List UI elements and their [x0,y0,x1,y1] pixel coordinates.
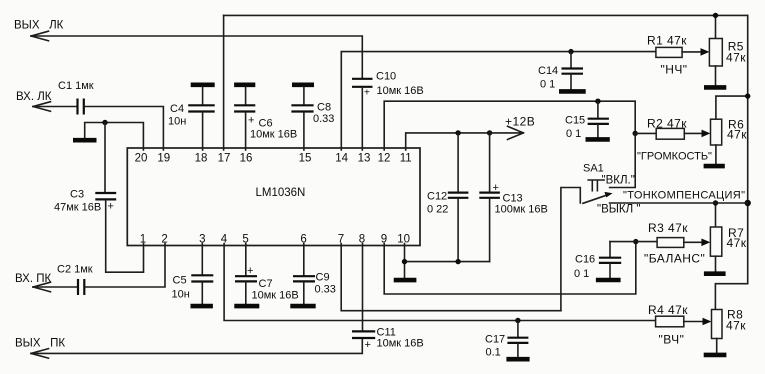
pin numbers top row [135,153,412,165]
svg-text:LM1036N: LM1036N [256,187,306,199]
capacitor C10 [352,71,424,99]
svg-text:"ТОНКОМПЕНСАЦИЯ": "ТОНКОМПЕНСАЦИЯ" [623,190,745,202]
svg-text:0 1: 0 1 [566,128,581,140]
capacitor C3 [54,189,116,214]
svg-text:17: 17 [218,153,231,165]
svg-text:SA1: SA1 [583,163,604,175]
ground (below R8) [704,353,727,358]
svg-text:+: + [365,339,371,351]
svg-text:"БАЛАНС": "БАЛАНС" [644,252,705,266]
svg-text:C4: C4 [170,103,184,115]
wire C3 to pin 1 [106,201,144,273]
capacitor C16 [574,242,621,280]
ground (below C5) [191,304,213,309]
svg-text:R1 47к: R1 47к [647,34,687,48]
svg-text:C16: C16 [575,254,595,266]
wire R3 to R7 wiper arrow [684,239,711,247]
node dot C12 bottom [455,259,460,264]
wire R4 to R8 wiper arrow [684,318,712,326]
svg-text:0.33: 0.33 [313,113,334,125]
svg-text:R4 47к: R4 47к [648,303,688,317]
net ВХ ЛК arrow [33,102,51,112]
wire C8 to pin 15 [303,113,305,151]
capacitor C9 [293,244,336,304]
svg-text:14: 14 [335,153,348,165]
net ВЫХ ПК label [15,338,65,350]
svg-text:+: + [108,201,114,213]
svg-text:C14: C14 [538,65,558,77]
capacitor C6 [234,87,297,140]
node dot pin 10 [402,259,407,264]
svg-text:10мк 16В: 10мк 16В [377,338,424,350]
node dot C12 top [455,130,460,135]
wire to R2 [635,132,656,134]
capacitor C8 [291,87,334,125]
potentiometer R7 [710,203,746,271]
capacitor C12 [427,133,468,262]
wire ВХ ПК to C2 [33,286,77,288]
svg-text:100мк 16В: 100мк 16В [495,204,548,216]
svg-text:C10: C10 [376,71,396,83]
ground (above C6) [234,83,255,88]
ground (below R7) [704,271,726,276]
potentiometer R6 [711,96,748,164]
ground (below C9) [290,304,315,309]
resistor R4 [648,303,688,347]
node dot R2 left [633,131,638,136]
svg-text:11: 11 [400,153,412,165]
svg-text:10мк 16В: 10мк 16В [250,129,297,141]
svg-text:"НЧ": "НЧ" [661,63,688,77]
wire pin 7 to switch [341,244,561,311]
resistor R2 [637,117,712,163]
wire pin 10 ground node [405,244,490,278]
svg-text:10н: 10н [168,116,186,128]
node dot C13 top [487,130,492,135]
svg-text:ВЫХ ЛК: ВЫХ ЛК [14,20,64,32]
svg-text:47к: 47к [727,236,747,250]
svg-text:15: 15 [299,153,312,165]
wire pin 4 to R4 [224,244,655,321]
svg-text:10мк 16В: 10мк 16В [377,85,424,97]
svg-text:C8: C8 [317,102,331,114]
svg-text:C15: C15 [565,115,585,127]
node dot C17 [515,318,520,323]
wire pin 11 to +12V [406,133,490,150]
svg-text:+: + [248,115,254,127]
capacitor C5 [172,244,214,304]
ground (below R6) [704,164,725,169]
capacitor C13 [479,133,548,262]
net ТОНКОМПЕНСАЦИЯ label [623,190,745,202]
node dot C14 [568,49,573,54]
svg-text:C12: C12 [427,191,447,203]
node dot rail tonkompensacia [745,200,751,206]
switch SA1 [561,133,641,310]
wire C4 to pin 18 [202,113,204,151]
svg-text:0 1: 0 1 [574,268,589,280]
capacitor C4 [168,87,215,127]
svg-text:0 22: 0 22 [427,204,448,216]
wire ground node to pin 20 [85,123,144,151]
ground (below R5) [704,85,726,90]
svg-text:C17: C17 [485,334,505,346]
ground (below C17) [506,357,529,362]
wire ВЫХ ЛК to C10 [31,36,362,78]
svg-text:C3: C3 [70,189,84,201]
wire ВХ ЛК to C1 [33,106,77,108]
wire R2 to R6 wiper arrow [684,130,710,138]
svg-text:"ВЫКЛ ": "ВЫКЛ " [597,204,640,216]
svg-text:19: 19 [157,153,170,165]
svg-text:18: 18 [195,153,208,165]
ground (below C15) [586,137,610,142]
svg-text:C5: C5 [173,275,187,287]
node dot C15 [595,99,600,104]
svg-text:0 1: 0 1 [540,79,555,91]
potentiometer R8 [712,308,747,353]
svg-text:C9: C9 [316,272,330,284]
wire top rail to pin 17 [223,15,225,150]
node dot R3 left [633,239,638,244]
svg-text:47к: 47к [726,319,746,333]
capacitor C1 [58,80,94,115]
wire right rail [715,15,747,309]
wire ТОНКОМПЕНСАЦИЯ line [610,202,748,204]
wire pin 14 to R1 row [341,52,656,150]
svg-text:"ГРОМКОСТЬ": "ГРОМКОСТЬ" [637,151,712,163]
wire pin 12 [384,101,635,150]
net +12В arrow [490,115,536,140]
net ВХ. ПК label [15,273,51,285]
ground (below C7) [234,304,259,309]
svg-text:10мк 16В: 10мк 16В [252,290,299,302]
wire ВЫХ ПК to C11 [31,339,362,354]
svg-text:R3 47к: R3 47к [648,221,688,235]
svg-text:ВХ. ЛК: ВХ. ЛК [16,91,52,103]
node dot R7 top [713,200,718,205]
node dot rail / R6 [745,93,750,98]
capacitor C7 [235,244,299,304]
svg-text:"ВКЛ.": "ВКЛ." [602,175,635,187]
wire R1 to R5 wiper arrow [682,48,709,56]
capacitor C14 [538,52,583,91]
svg-text:20: 20 [135,153,148,165]
svg-text:47к: 47к [727,128,747,142]
wire C6 to pin 16 [245,113,247,151]
svg-text:+12В: +12В [505,115,535,129]
wire C1 to pin 19 [85,107,164,151]
net ВХ. ЛК label [16,91,52,103]
svg-text:"ВЧ": "ВЧ" [659,333,685,347]
capacitor C2 [57,264,93,296]
svg-text:+: + [364,88,370,99]
capacitor C11 [352,244,424,352]
svg-text:47мк 16В: 47мк 16В [54,202,101,214]
net ВХ ПК arrow [33,282,51,292]
svg-text:C2 1мк: C2 1мк [57,264,93,276]
svg-text:10н: 10н [172,289,190,301]
ground (left, near C1) [73,138,97,143]
ground (below pin 10) [394,278,417,283]
net ВЫХ ЛК arrow [31,31,49,41]
wire top rail [224,14,748,16]
wire C16 corner to R3 [610,241,657,243]
svg-text:13: 13 [358,153,371,165]
IC U1 LM1036N body [127,148,420,246]
ground (above C8) [292,83,314,88]
svg-text:0.33: 0.33 [315,284,336,296]
node A junction dot [102,120,107,125]
capacitor C15 [565,101,609,140]
ground (below C14) [559,89,586,94]
node dot top rail / R5 [713,13,718,18]
ground (below C16) [596,278,621,283]
svg-text:C1 1мк: C1 1мк [58,80,94,92]
svg-text:0.1: 0.1 [486,347,501,359]
svg-text:ВЫХ ПК: ВЫХ ПК [15,338,65,350]
resistor R3 [644,221,705,266]
svg-text:47к: 47к [726,51,746,65]
net ВЫХ ЛК label [14,20,64,32]
ground (above C4) [191,83,215,88]
svg-text:12: 12 [378,153,391,165]
potentiometer R5 [709,15,746,85]
svg-text:10: 10 [397,234,410,246]
net ВЫХ ПК arrow [31,349,49,359]
pin numbers bottom row [140,234,410,246]
resistor R1 [647,34,687,77]
wire C2 to pin 2 [85,244,165,288]
capacitor C17 [485,321,528,359]
wire C10 to pin 13 [361,88,363,150]
wire node to C3 [104,123,106,193]
wire pin 9 to R3 node [384,242,636,294]
svg-text:C7: C7 [259,278,273,290]
svg-text:16: 16 [240,153,253,165]
